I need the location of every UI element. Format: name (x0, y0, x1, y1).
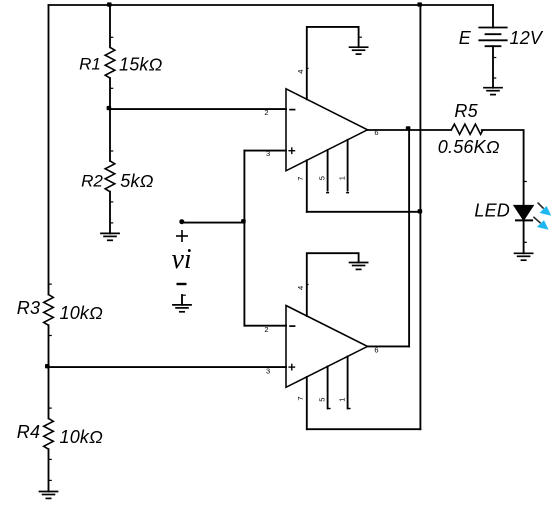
battery E (478, 28, 507, 47)
wire R1 top lead (109, 5, 111, 47)
junction dot top right (417, 2, 422, 6)
LED diode (514, 205, 534, 220)
svg-text:R4: R4 (17, 422, 40, 442)
wire vi plus to mid vertical (182, 222, 245, 224)
resistor R3 (44, 295, 54, 326)
svg-text:7: 7 (296, 396, 305, 400)
LED arrow 2 tail (533, 217, 540, 223)
wire node R1R2 to op-amp U1 pin2 (110, 108, 286, 110)
source vi minus sign (177, 283, 187, 285)
wire U2 pin5 stub (327, 366, 329, 408)
svg-text:10kΩ: 10kΩ (60, 427, 104, 447)
op-amp U2 (286, 306, 368, 388)
ground below R4 (39, 492, 59, 499)
wire LED cathode lead (523, 220, 525, 253)
wire R1 bottom lead (109, 78, 111, 109)
wire battery top lead (492, 5, 494, 28)
resistor R1 (105, 47, 115, 78)
op-amp U1 minus mark (289, 109, 295, 111)
pin end ticks (49, 37, 527, 480)
junction dot node R3R4 (45, 364, 50, 368)
svg-text:5: 5 (317, 398, 326, 402)
svg-text:2: 2 (264, 325, 268, 334)
U2 pin1 end tick (348, 408, 351, 410)
wire U1 pin3 input (244, 150, 286, 152)
wire R2 top lead (109, 109, 111, 161)
svg-text:5kΩ: 5kΩ (120, 171, 153, 191)
wire U2 pin7 down (306, 377, 308, 429)
op-amp U2 minus mark (289, 325, 295, 327)
svg-text:10kΩ: 10kΩ (60, 303, 104, 323)
svg-text:LED: LED (474, 201, 510, 221)
svg-text:4: 4 (296, 286, 305, 290)
svg-text:6: 6 (374, 345, 378, 354)
wire R2 bottom lead (109, 192, 111, 234)
svg-text:R2: R2 (81, 171, 103, 190)
wire U1 output (368, 129, 452, 131)
svg-text:R5: R5 (454, 101, 478, 121)
svg-text:0.56KΩ: 0.56KΩ (438, 137, 500, 157)
source vi plus sign (176, 230, 188, 242)
wire R4 top lead (48, 367, 50, 418)
source vi plus terminal dot (179, 219, 184, 224)
svg-text:1: 1 (337, 176, 346, 180)
svg-text:4: 4 (296, 70, 305, 74)
op-amp U1 (286, 89, 368, 171)
U2 pin5 end tick (328, 408, 331, 410)
wire outputs vertical A (408, 130, 410, 346)
wire U2 output (368, 345, 410, 347)
resistor R4 (44, 418, 54, 449)
wire top rail (49, 4, 494, 6)
svg-text:6: 6 (374, 128, 378, 137)
svg-text:3: 3 (266, 149, 270, 158)
svg-text:2: 2 (264, 108, 268, 117)
ground vi (172, 295, 192, 312)
wire R3 bottom lead (48, 325, 50, 367)
wire U1 pin1 stub (347, 140, 349, 191)
wire R4 bottom lead (48, 449, 50, 491)
wire U1 pin7 down (306, 160, 308, 212)
wire right vertical B (419, 5, 421, 429)
wire left vertical (48, 5, 50, 295)
wire R5 right lead (482, 130, 524, 205)
svg-text:R3: R3 (17, 298, 40, 318)
U1 pin5 end tick (326, 192, 329, 194)
junction dot output node (406, 126, 411, 130)
ground below R2 (100, 233, 120, 240)
wire U2 pin1 stub (347, 356, 349, 408)
LED arrow 1 head (540, 206, 552, 216)
ground LED (514, 253, 534, 260)
resistor R5 (451, 124, 483, 134)
svg-text:5: 5 (317, 176, 326, 180)
svg-text:R1: R1 (79, 55, 101, 74)
svg-text:7: 7 (296, 177, 305, 181)
U1 pin1 end tick (346, 192, 349, 194)
LED arrow 2 head (537, 220, 549, 230)
svg-text:1: 1 (337, 398, 346, 402)
ground U2 pin4 (349, 263, 369, 270)
wire U1 pin5 stub (327, 150, 329, 191)
wire U1 bottom rail (307, 211, 421, 213)
wire mid vertical (243, 151, 245, 326)
op-amp U1 plus mark (288, 147, 295, 154)
wire U2 pin4 up to ground (307, 253, 359, 316)
junction dot vi mid vertical (241, 219, 246, 223)
svg-text:12V: 12V (510, 28, 544, 48)
op-amp U2 plus mark (288, 364, 295, 371)
wire battery bottom lead (492, 46, 494, 87)
svg-text:vi: vi (172, 244, 192, 275)
LED arrow 1 tail (538, 203, 544, 209)
junction dot node R1R2 (107, 106, 112, 110)
svg-text:15kΩ: 15kΩ (119, 54, 163, 74)
junction dot bottom rail B (418, 209, 423, 213)
ground battery (483, 88, 503, 95)
wire vi ground lead (181, 295, 183, 305)
ground U1 pin4 (349, 47, 369, 54)
junction dot top R1 (107, 2, 112, 6)
svg-text:3: 3 (266, 367, 270, 376)
wire U2 bottom rail (307, 428, 421, 430)
LED cathode bar (515, 219, 533, 221)
wire U1 pin4 up to ground (307, 27, 359, 99)
wire U2 pin2 input (244, 325, 286, 327)
wire node R3R4 to op-amp U2 pin3 (49, 366, 287, 368)
resistor R2 (105, 161, 115, 192)
svg-text:E: E (459, 28, 472, 48)
